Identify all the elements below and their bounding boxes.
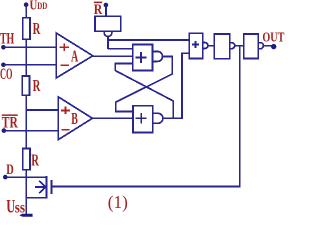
transistor Q1 channel bar bbox=[46, 176, 48, 199]
wire G3 to inverter G4 bbox=[208, 45, 214, 47]
wire UDD to R1 bbox=[25, 5, 27, 18]
wire R3 to ground bbox=[25, 170, 27, 214]
wire R-bar inverter output down bbox=[107, 37, 109, 49]
NOR gate G1 plus symbol bbox=[135, 52, 146, 63]
pin CO dot bbox=[1, 63, 6, 68]
svg-text:R: R bbox=[31, 151, 39, 170]
svg-text:DD: DD bbox=[37, 1, 47, 11]
transistor Q1 substrate arrow bbox=[35, 181, 46, 193]
svg-text:OUT: OUT bbox=[262, 30, 284, 45]
NOR gate G2 output bump bbox=[153, 113, 163, 123]
inverter G5 body bbox=[244, 34, 258, 59]
wire comparator B output to NOR gate G2 bbox=[92, 117, 133, 119]
svg-text:B: B bbox=[71, 109, 78, 128]
inverter U1 reset buffer box bbox=[95, 16, 121, 31]
svg-text:TR: TR bbox=[2, 115, 19, 132]
wire CO to comparator A - input bbox=[3, 64, 56, 66]
wire G5 output to OUT bbox=[264, 45, 272, 47]
inverter U1 output bump bbox=[104, 31, 112, 36]
svg-text:R: R bbox=[94, 2, 103, 18]
wire comparator A output to NOR gate G1 bbox=[93, 55, 133, 57]
logic gate G3 body bbox=[189, 33, 202, 58]
transistor Q1 gate bar bbox=[51, 180, 53, 194]
wire R-bar to gate G3 upper input bbox=[108, 39, 189, 41]
wire TR to comparator B - input bbox=[4, 130, 58, 132]
svg-text:D: D bbox=[6, 162, 14, 178]
comparator B minus input marker bbox=[62, 129, 70, 131]
pin OUT dot bbox=[271, 44, 276, 49]
node UDD supply dot bbox=[24, 2, 29, 7]
wire R1 to R2 bbox=[25, 39, 27, 76]
svg-text:R: R bbox=[33, 76, 41, 95]
op-amp comparator A bbox=[56, 33, 93, 78]
wire G2 output cross-coupling to G1 input bbox=[115, 63, 173, 118]
inverter G4 output bump bbox=[230, 43, 235, 49]
wire R-bar branch to NOR gate G1 input bbox=[108, 48, 133, 50]
wire R-bar dot to inverter box bbox=[105, 5, 107, 16]
resistor R2 bbox=[22, 76, 29, 95]
comparator A plus input marker bbox=[60, 44, 69, 51]
gate G3 plus symbol bbox=[192, 41, 199, 48]
svg-text:(1): (1) bbox=[108, 192, 128, 212]
svg-text:CO: CO bbox=[0, 66, 13, 83]
svg-text:U: U bbox=[30, 0, 38, 14]
resistor R1 bbox=[23, 18, 30, 40]
comparator B plus input marker bbox=[61, 106, 70, 114]
wire R2 to R3 bbox=[25, 95, 27, 148]
NOR gate G2 body bbox=[133, 106, 153, 133]
comparator A minus input marker bbox=[61, 64, 69, 66]
wire TH to comparator A + input bbox=[3, 46, 56, 48]
resistor R3 bbox=[23, 149, 30, 170]
svg-text:ss: ss bbox=[15, 199, 25, 216]
NOR gate G1 output bump bbox=[152, 51, 162, 61]
wire D to transistor drain bbox=[5, 176, 46, 178]
pin TR dot bbox=[2, 128, 7, 133]
inverter G5 output bump bbox=[258, 43, 263, 49]
wire discharge gate drive down from junction bbox=[53, 46, 240, 187]
node R-bar input dot bbox=[104, 3, 109, 8]
NOR gate G2 plus symbol bbox=[136, 113, 147, 124]
inverter G4 body bbox=[214, 34, 229, 59]
wire G4 to inverter G5 with junction bbox=[235, 45, 244, 47]
transistor Q1 source lead bbox=[26, 197, 46, 199]
pin TH dot bbox=[1, 45, 6, 50]
gate G3 output bump bbox=[203, 43, 208, 49]
svg-text:TH: TH bbox=[0, 31, 14, 48]
svg-text:R: R bbox=[33, 19, 41, 38]
pin D dot bbox=[3, 175, 8, 180]
svg-text:A: A bbox=[71, 46, 78, 65]
op-amp comparator B bbox=[58, 97, 92, 140]
wire G1 output to cross-coupling bbox=[116, 56, 172, 111]
ground symbol USS bbox=[19, 214, 32, 217]
wire G2 output to latch output node bbox=[163, 53, 190, 118]
NOR gate G1 body bbox=[133, 45, 153, 71]
wire divider tap to comparator B + input bbox=[26, 109, 58, 111]
